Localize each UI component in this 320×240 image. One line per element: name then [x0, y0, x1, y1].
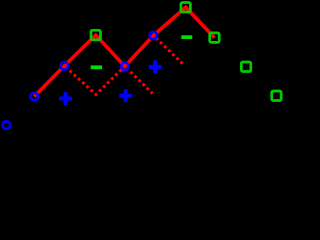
label plus below C4 — [119, 89, 132, 102]
label minus below S1 — [91, 65, 102, 69]
label minus below S2 — [181, 35, 192, 39]
node S5: green square — [272, 91, 282, 101]
node C4: blue circle — [121, 63, 129, 71]
node C2: blue circle — [30, 93, 38, 101]
node S4: green square — [241, 62, 251, 72]
wire: dotted red branch from C5 down-right — [153, 36, 184, 66]
wire: dotted red V from C3 down to valley up to C4 — [64, 66, 125, 95]
node S1: green square — [91, 30, 101, 40]
label plus below C5 — [149, 60, 162, 73]
node C3: blue circle — [61, 62, 69, 70]
node C1: blue circle bottom-left — [3, 121, 11, 129]
node S2: green square — [181, 3, 191, 13]
node S3: green square — [210, 33, 220, 43]
label plus below C3 — [59, 92, 72, 105]
wire: dotted red branch from C4 down-right — [125, 66, 153, 93]
wire: solid red path C2-C3-S1-C4-C5-S2-S3 — [34, 7, 214, 96]
node C5: blue circle — [150, 32, 158, 40]
